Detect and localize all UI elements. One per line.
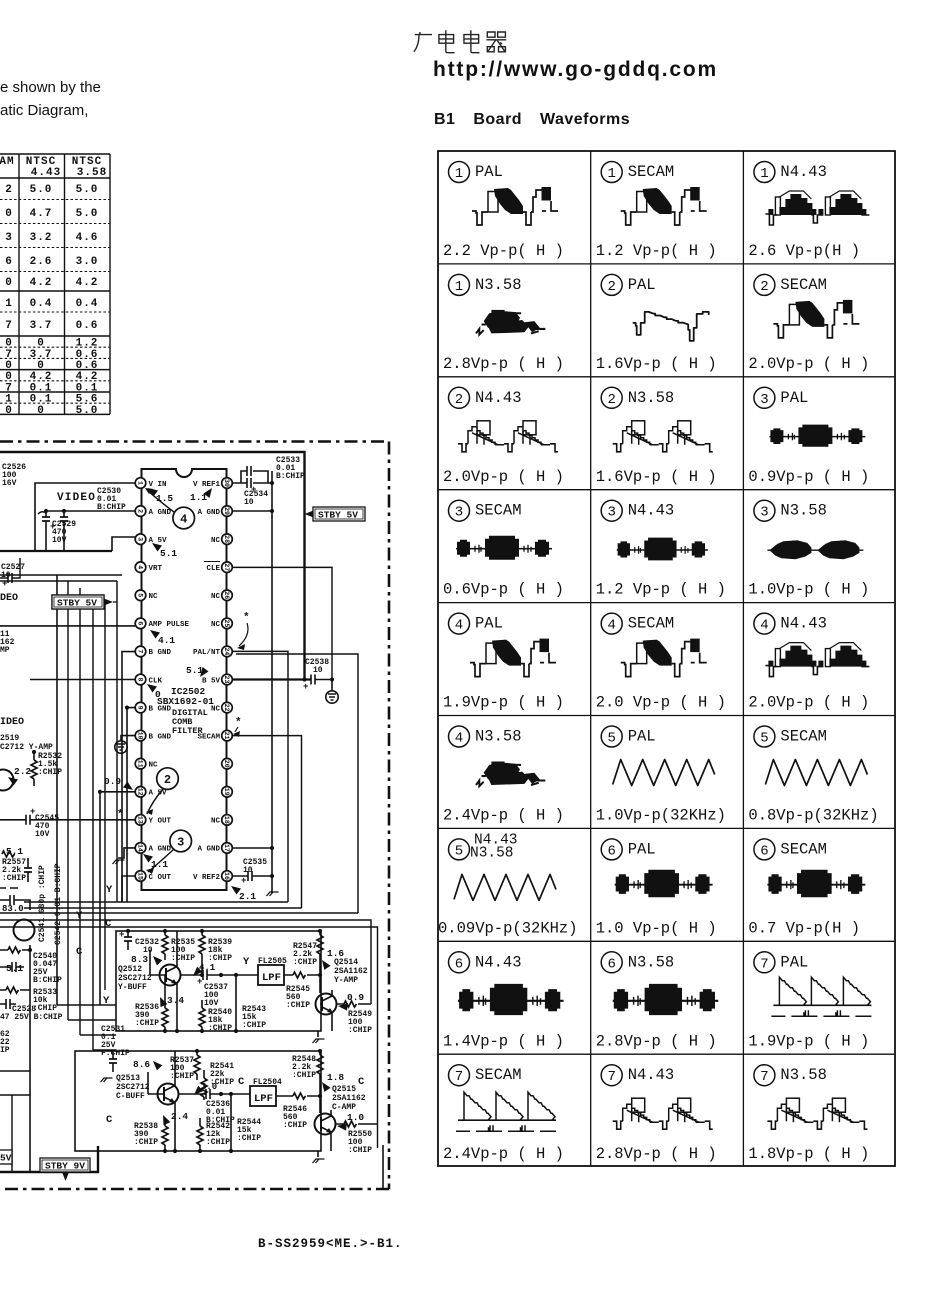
svg-text:4.7: 4.7 xyxy=(30,208,53,220)
IC U2502 body xyxy=(142,469,227,890)
svg-text:A GND: A GND xyxy=(149,846,172,854)
svg-text:AMP PULSE: AMP PULSE xyxy=(149,621,190,629)
IC pin 23 B 5V xyxy=(222,674,233,685)
svg-text:7: 7 xyxy=(5,320,13,332)
svg-text:1.2 Vp-p ( H ): 1.2 Vp-p ( H ) xyxy=(596,581,726,599)
svg-text:1.6Vp-p ( H ): 1.6Vp-p ( H ) xyxy=(596,355,717,373)
svg-text::CHIP: :CHIP xyxy=(283,1121,307,1130)
svg-text:10: 10 xyxy=(244,498,254,507)
svg-text:B 5V: B 5V xyxy=(202,677,221,685)
svg-text::CHIP: :CHIP xyxy=(348,1146,372,1155)
svg-text:5V: 5V xyxy=(0,1153,12,1164)
IC pin 15 C OUT xyxy=(135,871,146,882)
svg-text:3: 3 xyxy=(136,537,143,541)
svg-text:17: 17 xyxy=(223,844,230,852)
IC pin 26 NC xyxy=(222,590,233,601)
svg-text:0.6: 0.6 xyxy=(76,360,99,372)
svg-text:4: 4 xyxy=(180,513,187,527)
signal row capacitor C2536 and LPF FL2504 xyxy=(178,1093,250,1095)
svg-text:16: 16 xyxy=(223,872,230,880)
svg-text:2.0Vp-p ( H ): 2.0Vp-p ( H ) xyxy=(748,355,869,373)
STBY 5V flag left (redraw on top) xyxy=(52,595,104,609)
ground below C2538 xyxy=(326,691,338,703)
svg-text:4.2: 4.2 xyxy=(76,277,99,289)
svg-text:C: C xyxy=(106,1114,113,1126)
IC pin 22 NC xyxy=(222,702,233,713)
5V flag (cut) xyxy=(0,1150,12,1164)
svg-text:C: C xyxy=(238,1076,245,1088)
svg-text:VRT: VRT xyxy=(149,565,163,573)
waveform cell (4) N3.58 xyxy=(443,726,564,825)
IC pin 7 B GND xyxy=(135,646,146,657)
wire pin23 B5V / capacitor C2538 xyxy=(232,678,311,680)
right vertical solid near border xyxy=(382,1145,384,1189)
svg-text::CHIP: :CHIP xyxy=(38,768,62,777)
svg-text:C OUT: C OUT xyxy=(149,874,172,882)
svg-text:Y: Y xyxy=(76,910,83,922)
svg-text:N4.43: N4.43 xyxy=(628,1066,675,1084)
svg-text:*: * xyxy=(243,612,250,624)
resistor R2542 xyxy=(197,1126,203,1145)
svg-text:0.09Vp-p(32KHz): 0.09Vp-p(32KHz) xyxy=(438,919,578,937)
svg-text:4: 4 xyxy=(760,618,768,634)
svg-text:Y: Y xyxy=(103,995,110,1007)
svg-text:14: 14 xyxy=(136,844,143,852)
svg-text:2.8Vp-p ( H ): 2.8Vp-p ( H ) xyxy=(443,355,564,373)
resistor after LPF xyxy=(276,1095,320,1097)
svg-text:6: 6 xyxy=(5,256,13,268)
svg-text:2.2 Vp-p( H ): 2.2 Vp-p( H ) xyxy=(443,242,564,260)
svg-text:B:CHIP: B:CHIP xyxy=(97,503,126,512)
svg-text:1.0: 1.0 xyxy=(347,1112,364,1123)
wire pin17 xyxy=(232,847,272,849)
STBY 9V flag xyxy=(40,1158,90,1172)
svg-text:Y: Y xyxy=(106,884,113,896)
svg-text:2.6: 2.6 xyxy=(30,256,53,268)
svg-text::CHIP: :CHIP xyxy=(134,1138,158,1147)
svg-text:3: 3 xyxy=(760,392,768,408)
svg-text::CHIP: :CHIP xyxy=(237,1134,261,1143)
svg-text:1: 1 xyxy=(607,166,615,182)
IC pin 9 B GND xyxy=(135,702,146,713)
svg-text:N3.58: N3.58 xyxy=(475,276,522,294)
svg-text:27: 27 xyxy=(223,563,230,571)
svg-text:2: 2 xyxy=(607,392,615,408)
svg-text:7: 7 xyxy=(5,349,13,361)
svg-text:V REF2: V REF2 xyxy=(193,874,221,882)
svg-text:2: 2 xyxy=(136,509,143,513)
svg-text:3.0: 3.0 xyxy=(201,1082,217,1092)
svg-text:N4.43: N4.43 xyxy=(475,953,522,971)
wire pin9 xyxy=(127,708,135,902)
schematic region xyxy=(0,430,400,1264)
svg-text:1: 1 xyxy=(760,166,768,182)
svg-text:29: 29 xyxy=(223,507,230,515)
svg-text:1.0Vp-p(32KHz): 1.0Vp-p(32KHz) xyxy=(596,807,726,825)
svg-text:5.6: 5.6 xyxy=(76,394,99,406)
svg-text:Q2515: Q2515 xyxy=(332,1085,356,1094)
IC pin 28 NC xyxy=(222,534,233,545)
resistor R2543 xyxy=(235,975,237,1031)
svg-text:13: 13 xyxy=(136,816,143,824)
waveform cell (5) N4.43/N3.58 xyxy=(438,832,578,937)
svg-text:8: 8 xyxy=(136,678,143,682)
waveform cell (5) SECAM xyxy=(748,726,878,825)
svg-text:5.0: 5.0 xyxy=(76,405,99,417)
svg-text:2.6 Vp-p(H ): 2.6 Vp-p(H ) xyxy=(748,242,860,260)
IC pin 13 Y OUT xyxy=(135,815,146,826)
svg-text:C-AMP: C-AMP xyxy=(332,1103,356,1112)
svg-text:SECAM: SECAM xyxy=(628,163,675,181)
wire pin10 / ground xyxy=(121,736,135,741)
svg-text:7: 7 xyxy=(760,956,768,972)
svg-text:24: 24 xyxy=(223,647,230,655)
svg-text:DEO: DEO xyxy=(0,593,18,604)
transistor Q2519 xyxy=(0,770,14,791)
svg-text:SECAM: SECAM xyxy=(780,728,827,746)
resistor R2544 xyxy=(230,1094,232,1151)
svg-text:Q2514: Q2514 xyxy=(334,958,358,967)
callout circle 3 xyxy=(170,830,192,852)
svg-text:A GND: A GND xyxy=(197,846,220,854)
svg-text:Y OUT: Y OUT xyxy=(149,818,172,826)
svg-text:9: 9 xyxy=(136,706,143,710)
svg-text:0: 0 xyxy=(5,360,13,372)
svg-text:4: 4 xyxy=(455,731,463,747)
resistor R2536 xyxy=(162,1008,168,1027)
svg-text:C2542 0.01 B:CHIP: C2542 0.01 B:CHIP xyxy=(54,863,63,945)
wire pin15 xyxy=(122,876,135,902)
svg-text:2.2: 2.2 xyxy=(14,766,31,777)
IC pin 6 AMP PULSE xyxy=(135,618,146,629)
svg-text:2SA1162: 2SA1162 xyxy=(332,1094,366,1103)
svg-text:Q2512: Q2512 xyxy=(118,965,142,974)
svg-text:IDEO: IDEO xyxy=(0,717,24,728)
capacitor C2535 / pin16 xyxy=(232,875,272,877)
svg-text:PAL: PAL xyxy=(475,615,503,633)
svg-text:0.8Vp-p(32KHz): 0.8Vp-p(32KHz) xyxy=(748,807,878,825)
svg-text:NC: NC xyxy=(149,593,159,601)
wire pin2 / C2529 / C2530 xyxy=(46,511,135,551)
svg-text:1.0Vp-p ( H ): 1.0Vp-p ( H ) xyxy=(748,581,869,599)
capacitor C2532 xyxy=(127,931,129,950)
svg-text:26: 26 xyxy=(223,591,230,599)
svg-text:6: 6 xyxy=(607,843,615,859)
IC pin 29 A GND xyxy=(222,506,233,517)
svg-text:C: C xyxy=(105,918,112,930)
left box lines bottom xyxy=(0,1071,30,1172)
svg-text:10: 10 xyxy=(136,732,143,740)
svg-text:Q2513: Q2513 xyxy=(116,1074,140,1083)
svg-text:2.4Vp-p ( H ): 2.4Vp-p ( H ) xyxy=(443,1145,564,1163)
svg-text:B GND: B GND xyxy=(149,733,172,741)
svg-text:2SC2712: 2SC2712 xyxy=(116,1083,150,1092)
svg-text:0.1: 0.1 xyxy=(30,394,53,406)
svg-text:2SA1162: 2SA1162 xyxy=(334,967,368,976)
svg-text:NC: NC xyxy=(211,621,221,629)
svg-text:SECAM: SECAM xyxy=(628,615,675,633)
svg-text:N3.58: N3.58 xyxy=(628,953,675,971)
svg-text:0.1: 0.1 xyxy=(76,382,99,394)
svg-text:Y-AMP: Y-AMP xyxy=(334,976,358,985)
svg-text:5.0: 5.0 xyxy=(30,184,53,196)
resistor R2548 xyxy=(317,1055,323,1074)
svg-text:STBY 9V: STBY 9V xyxy=(45,1161,85,1172)
waveform cell (2) N3.58 xyxy=(596,387,717,486)
svg-text:A GND: A GND xyxy=(149,509,172,517)
svg-text:5.1: 5.1 xyxy=(160,548,177,559)
svg-text:1.0 Vp-p( H ): 1.0 Vp-p( H ) xyxy=(596,919,717,937)
svg-text:6: 6 xyxy=(136,621,143,625)
svg-text::CHIP: :CHIP xyxy=(286,1001,310,1010)
svg-text:LPF: LPF xyxy=(254,1093,273,1105)
svg-text:0.6: 0.6 xyxy=(76,349,99,361)
svg-text:0.9: 0.9 xyxy=(104,776,121,787)
waveform cell (4) N4.43 xyxy=(748,613,869,712)
svg-text:AM: AM xyxy=(0,156,15,168)
IC pin 24 PAL/NT xyxy=(222,646,233,657)
resistor R2540 xyxy=(199,1008,205,1027)
IC pin 2 A GND xyxy=(135,506,146,517)
svg-text:B GND: B GND xyxy=(149,705,172,713)
svg-text:1: 1 xyxy=(5,298,13,310)
svg-text:3.7: 3.7 xyxy=(30,349,53,361)
svg-text:1.9Vp-p ( H ): 1.9Vp-p ( H ) xyxy=(748,1032,869,1050)
svg-text::CHIP: :CHIP xyxy=(293,958,317,967)
svg-text:4.2: 4.2 xyxy=(76,371,99,383)
IC pin 14 A GND xyxy=(135,843,146,854)
B1 board solid border xyxy=(0,452,305,1172)
svg-text:4.1: 4.1 xyxy=(158,635,175,646)
wire pin1 video in xyxy=(35,483,135,551)
bottom rail C-BUFF xyxy=(163,1149,167,1153)
svg-text:C: C xyxy=(358,1076,365,1088)
waveform cell (2) PAL xyxy=(596,274,717,373)
svg-text:1: 1 xyxy=(136,481,143,485)
svg-text:2: 2 xyxy=(760,279,768,295)
svg-text:A 5V: A 5V xyxy=(149,537,168,545)
waveform cell (1) N4.43 xyxy=(748,162,869,261)
section title B1 Board Waveforms xyxy=(434,111,630,129)
waveform cell (7) SECAM xyxy=(443,1065,564,1164)
svg-text:PAL: PAL xyxy=(628,728,656,746)
bottom rail Y-BUFF xyxy=(163,1029,167,1033)
svg-text:MP: MP xyxy=(0,646,10,655)
svg-text:B-SS2959<ME.>-B1.: B-SS2959<ME.>-B1. xyxy=(258,1237,400,1251)
svg-text:2.4: 2.4 xyxy=(171,1111,188,1122)
waveform cell (3) N4.43 xyxy=(596,500,726,599)
svg-text:SECAM: SECAM xyxy=(475,1066,522,1084)
IC pin 25 NC xyxy=(222,618,233,629)
waveform cell (1) N3.58 xyxy=(443,274,564,373)
svg-text:0: 0 xyxy=(5,338,13,350)
resistor R2537 xyxy=(194,1055,200,1074)
svg-text:10: 10 xyxy=(313,666,323,675)
svg-text:4: 4 xyxy=(455,618,463,634)
svg-text:2.8Vp-p ( H ): 2.8Vp-p ( H ) xyxy=(596,1032,717,1050)
bus vertical right xyxy=(271,471,273,893)
svg-text:3: 3 xyxy=(607,505,615,521)
svg-text:1.4Vp-p ( H ): 1.4Vp-p ( H ) xyxy=(443,1032,564,1050)
svg-text:0: 0 xyxy=(5,405,13,417)
svg-text:1: 1 xyxy=(455,279,463,295)
svg-text:NC: NC xyxy=(211,818,221,826)
svg-text:4: 4 xyxy=(607,618,615,634)
waveform cell (3) SECAM xyxy=(443,500,564,599)
svg-text:23: 23 xyxy=(223,676,230,684)
svg-text::CHIP: :CHIP xyxy=(135,1019,159,1028)
svg-text:1: 1 xyxy=(455,166,463,182)
waveform cell (4) PAL xyxy=(443,613,564,712)
svg-text:STBY 5V: STBY 5V xyxy=(318,510,358,521)
IC pin 4 VRT xyxy=(135,562,146,573)
page border dash-dot frame xyxy=(0,442,389,1190)
header chinese logo (guang dian dian qi) drawn as strokes xyxy=(413,29,508,54)
svg-text:1.8Vp-p ( H ): 1.8Vp-p ( H ) xyxy=(748,1145,869,1163)
IC pin 30 V REF1 xyxy=(222,478,233,489)
svg-text:3.58: 3.58 xyxy=(77,167,107,179)
svg-text:B GND: B GND xyxy=(149,649,172,657)
svg-text:NC: NC xyxy=(211,537,221,545)
svg-text:Y-BUFF: Y-BUFF xyxy=(118,983,147,992)
svg-text:3.2: 3.2 xyxy=(30,232,53,244)
wire pin30 to C2534 xyxy=(232,471,272,483)
IC pin 21 SECAM xyxy=(222,730,233,741)
svg-text:NC: NC xyxy=(149,762,159,770)
svg-text:6: 6 xyxy=(455,956,463,972)
waveform table B1 xyxy=(437,150,897,1168)
resistor R2541 xyxy=(201,1078,207,1097)
svg-text:18: 18 xyxy=(223,816,230,824)
svg-text:12: 12 xyxy=(136,788,143,796)
svg-text:PAL: PAL xyxy=(628,840,656,858)
svg-text:2SC2712: 2SC2712 xyxy=(118,974,152,983)
svg-text:5.1: 5.1 xyxy=(6,963,23,974)
wire pin21 SECAM xyxy=(232,736,302,908)
IC pin 3 A 5V xyxy=(135,534,146,545)
svg-text:2: 2 xyxy=(455,392,463,408)
waveform cell (6) N4.43 xyxy=(443,952,564,1051)
svg-text:+: + xyxy=(303,682,308,692)
IC pin 1 V IN xyxy=(135,478,146,489)
svg-text:4: 4 xyxy=(136,565,143,569)
svg-text:0: 0 xyxy=(5,371,13,383)
waveform cell (2) SECAM xyxy=(748,274,869,373)
svg-text:1.6Vp-p ( H ): 1.6Vp-p ( H ) xyxy=(596,468,717,486)
svg-text:+: + xyxy=(197,977,202,987)
svg-text:0.9Vp-p ( H ): 0.9Vp-p ( H ) xyxy=(748,468,869,486)
svg-text:CLK: CLK xyxy=(149,677,163,685)
wire pin7 xyxy=(122,652,135,902)
svg-text:5.0: 5.0 xyxy=(76,184,99,196)
svg-text:SECAM: SECAM xyxy=(780,840,827,858)
svg-text:N4.43: N4.43 xyxy=(475,389,522,407)
STBY 5V flag left xyxy=(52,595,104,609)
svg-text:0: 0 xyxy=(5,208,13,220)
svg-text:1: 1 xyxy=(5,394,13,406)
svg-text:0: 0 xyxy=(37,338,45,350)
svg-text:0.4: 0.4 xyxy=(30,298,53,310)
waveform cell (6) SECAM xyxy=(748,839,865,938)
wire pin8 clk xyxy=(30,679,135,681)
svg-text:10V: 10V xyxy=(52,536,67,545)
svg-text:CLE: CLE xyxy=(206,565,220,573)
svg-text:1.2 Vp-p( H ): 1.2 Vp-p( H ) xyxy=(596,242,717,260)
IC pin 5 NC xyxy=(135,590,146,601)
waveform cell (3) PAL xyxy=(748,387,869,486)
svg-text:7: 7 xyxy=(136,649,143,653)
svg-text:7: 7 xyxy=(455,1069,463,1085)
svg-text:NC: NC xyxy=(211,705,221,713)
svg-text:5: 5 xyxy=(760,731,768,747)
waveform cell (2) N4.43 xyxy=(443,387,564,486)
svg-text:2: 2 xyxy=(5,184,13,196)
IC pin 20 NC xyxy=(222,758,233,769)
svg-text:3.0: 3.0 xyxy=(76,256,99,268)
svg-text:1.9Vp-p ( H ): 1.9Vp-p ( H ) xyxy=(443,694,564,712)
svg-text:2: 2 xyxy=(164,773,171,787)
IC pin 10 B GND xyxy=(135,730,146,741)
svg-text:10: 10 xyxy=(243,866,253,875)
svg-text:10V: 10V xyxy=(204,999,219,1008)
svg-text:8.6: 8.6 xyxy=(133,1059,150,1070)
wire pin29 xyxy=(232,510,272,512)
waveform cell (6) PAL xyxy=(596,839,717,938)
svg-text:3: 3 xyxy=(455,505,463,521)
waveform cell (4) SECAM xyxy=(596,613,726,712)
svg-text:VIDEO: VIDEO xyxy=(57,492,96,504)
svg-text:4.2: 4.2 xyxy=(30,371,53,383)
svg-text:V REF1: V REF1 xyxy=(193,481,221,489)
svg-text:7: 7 xyxy=(760,1069,768,1085)
waveform cell (5) PAL xyxy=(596,726,726,825)
header url text xyxy=(433,58,718,82)
waveform cell (7) N4.43 xyxy=(596,1065,717,1164)
waveform cell (3) N3.58 xyxy=(748,500,869,599)
callout circle 4 xyxy=(173,507,195,529)
waveform cell (6) N3.58 xyxy=(596,952,719,1051)
svg-text:N4.43: N4.43 xyxy=(628,502,675,520)
svg-text:1.1: 1.1 xyxy=(190,492,207,503)
resistor R2539 xyxy=(199,935,205,954)
svg-text:5: 5 xyxy=(455,843,463,859)
svg-text:2: 2 xyxy=(607,279,615,295)
svg-text:SECAM: SECAM xyxy=(475,502,522,520)
wire pin6 amp pulse xyxy=(0,575,135,626)
svg-text::CHIP: :CHIP xyxy=(170,1072,194,1081)
svg-text:47 25V B:CHIP: 47 25V B:CHIP xyxy=(0,1013,63,1022)
svg-text::CHIP: :CHIP xyxy=(206,1138,230,1147)
svg-text:0.9: 0.9 xyxy=(347,992,364,1003)
svg-text:N3.58: N3.58 xyxy=(780,1066,827,1084)
bottom bus horizontals xyxy=(0,902,378,1148)
svg-text:7: 7 xyxy=(607,1069,615,1085)
wire pin27 CLE xyxy=(232,567,332,679)
svg-text:N3.58: N3.58 xyxy=(475,728,522,746)
svg-text:Y: Y xyxy=(243,956,250,968)
capacitor input C-buff xyxy=(112,1051,114,1072)
svg-text:30: 30 xyxy=(223,479,230,487)
svg-text:SECAM: SECAM xyxy=(197,733,220,741)
svg-text:B:CHIP: B:CHIP xyxy=(33,976,62,985)
IC pin 17 A GND xyxy=(222,843,233,854)
svg-text:3: 3 xyxy=(760,505,768,521)
svg-text:7: 7 xyxy=(5,382,13,394)
svg-text:2.0Vp-p ( H ): 2.0Vp-p ( H ) xyxy=(748,694,869,712)
svg-text:2.1: 2.1 xyxy=(239,891,256,902)
svg-text:3: 3 xyxy=(177,836,184,850)
svg-text:V IN: V IN xyxy=(149,481,167,489)
